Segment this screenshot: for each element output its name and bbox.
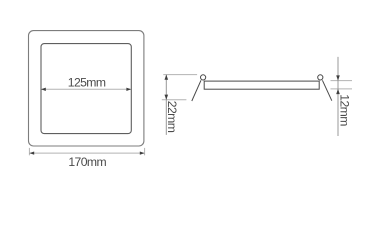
extension line bottom 12mm bbox=[331, 88, 353, 90]
arrowhead right 125mm bbox=[126, 88, 131, 91]
right mounting circle bbox=[318, 75, 323, 80]
extension line top 22mm bbox=[163, 74, 197, 76]
arrowhead left 125mm bbox=[41, 88, 46, 91]
extension line right 170mm bbox=[144, 148, 146, 155]
right spring clip bbox=[322, 80, 331, 100]
arrowhead down-to-top-edge 12mm bbox=[336, 75, 340, 80]
arrowhead up-to-bottom-edge 12mm bbox=[336, 89, 340, 94]
extension line top 12mm bbox=[331, 80, 353, 82]
svg-text:22mm: 22mm bbox=[165, 101, 179, 133]
side view panel bar bbox=[204, 81, 319, 89]
dimension line 125mm bbox=[42, 88, 131, 90]
extension line left 170mm bbox=[28, 148, 30, 155]
panel outer square (front view) bbox=[29, 31, 144, 146]
svg-text:12mm: 12mm bbox=[337, 94, 351, 126]
arrowhead left 170mm bbox=[29, 151, 34, 154]
panel inner square (front view) bbox=[41, 44, 131, 134]
extension line bottom 22mm bbox=[162, 99, 187, 101]
svg-text:125mm: 125mm bbox=[68, 75, 106, 89]
arrowhead up 22mm bbox=[165, 75, 169, 80]
arrowhead right 170mm bbox=[140, 151, 145, 154]
left spring clip bbox=[192, 80, 201, 101]
left mounting circle bbox=[201, 75, 206, 80]
arrowhead down 22mm bbox=[165, 95, 169, 100]
dimension line 170mm bbox=[29, 152, 144, 154]
svg-text:170mm: 170mm bbox=[68, 155, 106, 169]
dimension line 22mm bbox=[165, 75, 167, 135]
dimension line 12mm bbox=[337, 57, 339, 136]
